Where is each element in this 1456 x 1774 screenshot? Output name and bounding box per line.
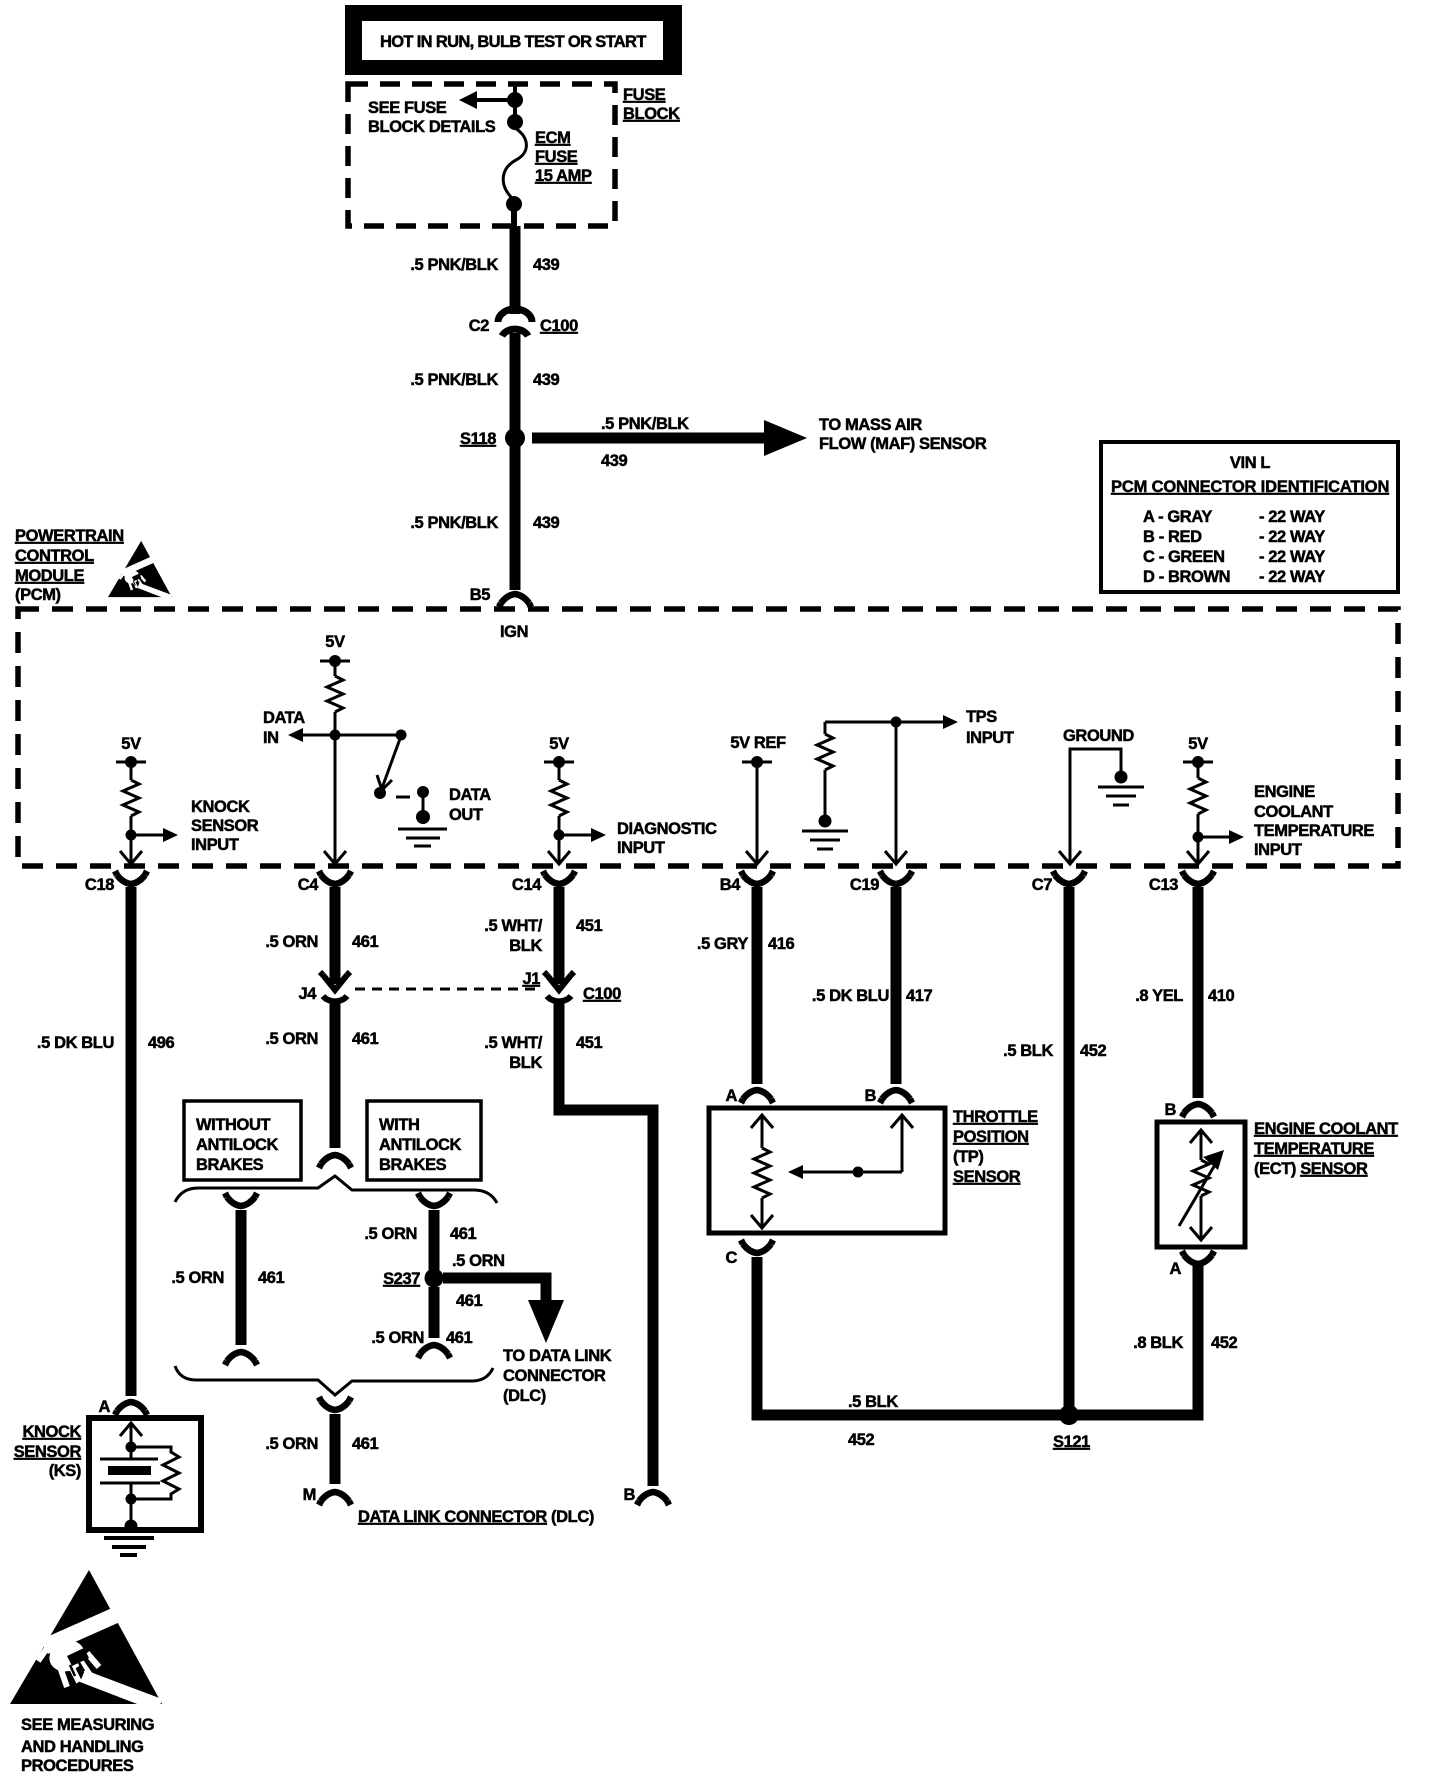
- svg-text:IGN: IGN: [500, 623, 528, 641]
- label THROTTLE POSITION (TP) SENSOR: [953, 1108, 1038, 1186]
- wire to pin C14 with arrow: [548, 816, 570, 864]
- label .5 BLK 452: [1003, 1042, 1106, 1060]
- upper brace: [175, 1176, 497, 1203]
- wire to pin C4 with arrow: [324, 735, 346, 864]
- node 5V (diagnostic pullup): [544, 735, 574, 768]
- svg-text:- 22 WAY: - 22 WAY: [1259, 568, 1325, 586]
- svg-text:C100: C100: [583, 985, 621, 1003]
- svg-text:WITHOUT: WITHOUT: [196, 1116, 271, 1134]
- svg-text:B: B: [623, 1486, 635, 1504]
- svg-text:451: 451: [576, 917, 603, 935]
- svg-text:B4: B4: [720, 876, 742, 894]
- svg-text:ENGINE: ENGINE: [1254, 783, 1315, 801]
- pin A of knock sensor: [98, 1398, 147, 1416]
- pin B4: [720, 871, 773, 894]
- svg-text:.5 DK BLU: .5 DK BLU: [37, 1034, 114, 1052]
- svg-text:461: 461: [352, 933, 379, 951]
- wire 461 without-ABS branch: [225, 1193, 257, 1365]
- svg-text:C18: C18: [85, 876, 114, 894]
- wire end hook above brace: [319, 1155, 351, 1168]
- TP internal right arrow up: [891, 1115, 913, 1172]
- svg-text:J1: J1: [522, 970, 540, 988]
- svg-text:461: 461: [352, 1030, 379, 1048]
- svg-text:PROCEDURES: PROCEDURES: [21, 1757, 134, 1774]
- label .5 GRY 416: [697, 935, 795, 953]
- svg-text:(DLC): (DLC): [503, 1387, 546, 1405]
- svg-text:BRAKES: BRAKES: [379, 1156, 447, 1174]
- svg-text:S237: S237: [383, 1270, 420, 1288]
- pin B of DLC: [623, 1486, 669, 1505]
- svg-text:B: B: [1164, 1101, 1176, 1119]
- wire 439 segment 3: [510, 438, 521, 590]
- pin C14: [512, 871, 575, 894]
- svg-text:IN: IN: [263, 729, 279, 747]
- svg-text:ANTILOCK: ANTILOCK: [196, 1136, 279, 1154]
- svg-text:TO MASS AIR: TO MASS AIR: [819, 416, 922, 434]
- svg-text:SEE FUSE: SEE FUSE: [368, 99, 447, 117]
- PCM dashed box: [18, 609, 1398, 866]
- svg-text:.5 PNK/BLK: .5 PNK/BLK: [410, 256, 498, 274]
- svg-text:A - GRAY: A - GRAY: [1143, 508, 1212, 526]
- junction dot: [506, 196, 522, 212]
- svg-text:BRAKES: BRAKES: [196, 1156, 264, 1174]
- label .5 DK BLU 417: [812, 987, 933, 1005]
- svg-text:DATA: DATA: [449, 786, 491, 804]
- label .5 PNK/BLK 439: [410, 256, 559, 274]
- svg-text:THROTTLE: THROTTLE: [953, 1108, 1038, 1126]
- wire from hot feed to fuse: [513, 84, 517, 124]
- arrow DATA IN: [263, 709, 335, 747]
- svg-text:.5 PNK/BLK: .5 PNK/BLK: [410, 514, 498, 532]
- label .5 PNK/BLK 439: [410, 514, 559, 532]
- svg-text:GROUND: GROUND: [1063, 727, 1134, 745]
- svg-text:(KS): (KS): [49, 1462, 81, 1480]
- pin A of ECT sensor: [1169, 1251, 1214, 1278]
- pin B5 of PCM: [470, 586, 531, 607]
- pin C of TP sensor: [725, 1240, 773, 1267]
- svg-text:451: 451: [576, 1034, 603, 1052]
- arrow to fuse block details: [459, 91, 515, 109]
- pin C7: [1032, 871, 1085, 894]
- svg-text:DIAGNOSTIC: DIAGNOSTIC: [617, 820, 717, 838]
- junction dot TPS: [891, 717, 902, 728]
- svg-text:.5 PNK/BLK: .5 PNK/BLK: [601, 415, 689, 433]
- label KNOCK SENSOR (KS): [14, 1423, 82, 1480]
- svg-text:C - GREEN: C - GREEN: [1143, 548, 1225, 566]
- pin C19: [850, 871, 912, 894]
- pin B of TP sensor: [864, 1087, 912, 1105]
- wire below S237: [418, 1287, 450, 1358]
- fuse F1 ECM FUSE 15 AMP: [503, 128, 592, 197]
- svg-text:DATA LINK CONNECTOR (DLC): DATA LINK CONNECTOR (DLC): [358, 1508, 594, 1526]
- label .8 BLK 452: [1133, 1334, 1237, 1352]
- svg-text:BLK: BLK: [509, 937, 542, 955]
- svg-text:MODULE: MODULE: [15, 567, 84, 585]
- svg-text:SENSOR: SENSOR: [14, 1443, 82, 1461]
- junction dot: [507, 92, 523, 108]
- svg-text:D - BROWN: D - BROWN: [1143, 568, 1230, 586]
- dashed link J4 to J1: [355, 988, 540, 991]
- svg-text:.5 ORN: .5 ORN: [364, 1225, 417, 1243]
- svg-text:WITH: WITH: [379, 1116, 420, 1134]
- engine coolant temperature sensor box: [1157, 1122, 1245, 1247]
- svg-text:ANTILOCK: ANTILOCK: [379, 1136, 462, 1154]
- node 5V (knock pullup): [116, 735, 146, 768]
- resistor data pull-up: [327, 661, 343, 735]
- junction dot data: [330, 730, 341, 741]
- label .5 DK BLU 496: [37, 1034, 175, 1052]
- svg-text:.5 WHT/: .5 WHT/: [484, 1034, 543, 1052]
- svg-text:C7: C7: [1032, 876, 1053, 894]
- wire 439 segment 2: [510, 333, 521, 438]
- svg-text:496: 496: [148, 1034, 175, 1052]
- svg-text:- 22 WAY: - 22 WAY: [1259, 528, 1325, 546]
- svg-text:AND HANDLING: AND HANDLING: [21, 1738, 144, 1756]
- label TO MASS AIR FLOW (MAF) SENSOR: [819, 416, 987, 453]
- label .5 WHT/BLK 451: [484, 1034, 602, 1072]
- switch lever (data out): [335, 730, 407, 791]
- arrow DIAGNOSTIC INPUT: [559, 820, 717, 857]
- label DATA OUT: [449, 786, 491, 824]
- svg-text:.5 ORN: .5 ORN: [265, 933, 318, 951]
- svg-text:5V: 5V: [121, 735, 141, 753]
- node 5V (data pullup): [320, 633, 350, 667]
- junction dot knock: [126, 830, 137, 841]
- svg-text:.5 ORN: .5 ORN: [171, 1269, 224, 1287]
- svg-text:POWERTRAIN: POWERTRAIN: [15, 527, 124, 545]
- svg-text:B - RED: B - RED: [1143, 528, 1202, 546]
- box WITHOUT ANTILOCK BRAKES: [184, 1101, 301, 1180]
- svg-text:.5 BLK: .5 BLK: [1003, 1042, 1053, 1060]
- svg-text:KNOCK: KNOCK: [23, 1423, 82, 1441]
- svg-text:FUSE: FUSE: [535, 148, 578, 166]
- svg-text:417: 417: [906, 987, 933, 1005]
- label .5 WHT/BLK 451: [484, 917, 602, 955]
- wire 461 from J4: [330, 1001, 341, 1148]
- power feed box HOT IN RUN: [345, 5, 682, 75]
- svg-text:S118: S118: [460, 430, 496, 448]
- svg-text:INPUT: INPUT: [1254, 841, 1302, 859]
- svg-text:FUSE: FUSE: [623, 86, 666, 104]
- svg-text:CONTROL: CONTROL: [15, 547, 94, 565]
- svg-text:452: 452: [848, 1431, 875, 1449]
- svg-text:(PCM): (PCM): [15, 586, 61, 604]
- svg-text:SENSOR: SENSOR: [953, 1168, 1021, 1186]
- wire 439 segment 1: [510, 226, 521, 314]
- svg-text:PCM CONNECTOR IDENTIFICATION: PCM CONNECTOR IDENTIFICATION: [1111, 478, 1389, 496]
- TP resistor: [754, 1148, 770, 1198]
- svg-text:C4: C4: [298, 876, 320, 894]
- wire 451 from C14: [554, 887, 565, 984]
- net IGN label: [500, 623, 528, 641]
- junction dot diagnostic: [554, 830, 565, 841]
- svg-text:A: A: [725, 1087, 737, 1105]
- ECT wire down arrow to A: [1190, 1196, 1212, 1240]
- svg-text:5V REF: 5V REF: [730, 734, 786, 752]
- svg-text:.5 ORN: .5 ORN: [265, 1435, 318, 1453]
- wire 410 from C13: [1193, 887, 1204, 1098]
- svg-text:SENSOR: SENSOR: [191, 817, 259, 835]
- ESD warning symbol small (near PCM label): [108, 541, 172, 601]
- KS internal arrow up: [120, 1423, 142, 1447]
- svg-text:452: 452: [1080, 1042, 1107, 1060]
- wire to pin C13 with arrow: [1187, 814, 1209, 864]
- svg-text:.5 ORN: .5 ORN: [265, 1030, 318, 1048]
- ground (TPS): [802, 815, 848, 850]
- svg-text:KNOCK: KNOCK: [191, 798, 250, 816]
- svg-text:C: C: [725, 1249, 737, 1267]
- svg-text:TPS: TPS: [966, 708, 997, 726]
- svg-text:(ECT) SENSOR: (ECT) SENSOR: [1254, 1160, 1368, 1178]
- svg-text:439: 439: [601, 452, 628, 470]
- svg-text:TO DATA LINK: TO DATA LINK: [503, 1347, 612, 1365]
- wire 452 from C7: [1064, 887, 1075, 1415]
- KS ground dot: [125, 1520, 138, 1533]
- label DATA LINK CONNECTOR (DLC): [358, 1508, 594, 1526]
- wire branch to MAF sensor: [532, 415, 807, 470]
- svg-text:ENGINE COOLANT: ENGINE COOLANT: [1254, 1120, 1398, 1138]
- wire 461 to DLC pin M: [319, 1397, 351, 1484]
- label .5 ORN 461: [364, 1225, 476, 1243]
- arrow ENGINE COOLANT TEMPERATURE INPUT: [1198, 783, 1374, 859]
- TP wiper junction dot: [853, 1167, 864, 1178]
- TP internal left arrow up: [751, 1115, 773, 1148]
- svg-text:410: 410: [1208, 987, 1235, 1005]
- svg-text:.5 ORN: .5 ORN: [371, 1329, 424, 1347]
- KS node dot bottom: [126, 1494, 137, 1505]
- wire 452 from TP pin C: [757, 1257, 1064, 1415]
- connector C2 C100: [469, 309, 578, 336]
- lower brace: [175, 1366, 493, 1395]
- label .5 ORN 461: [371, 1329, 472, 1347]
- svg-text:.8 YEL: .8 YEL: [1135, 987, 1183, 1005]
- ECT internal arrow up: [1190, 1130, 1212, 1160]
- arrow KNOCK SENSOR INPUT: [131, 798, 259, 854]
- svg-text:VIN L: VIN L: [1230, 454, 1270, 472]
- svg-text:HOT IN RUN, BULB TEST OR START: HOT IN RUN, BULB TEST OR START: [380, 33, 646, 51]
- svg-text:461: 461: [352, 1435, 379, 1453]
- label ENGINE COOLANT TEMPERATURE (ECT) SENSOR: [1254, 1120, 1398, 1178]
- svg-text:S121: S121: [1053, 1433, 1090, 1451]
- svg-text:461: 461: [258, 1269, 285, 1287]
- svg-text:5V: 5V: [325, 633, 345, 651]
- svg-text:OUT: OUT: [449, 806, 483, 824]
- svg-text:C19: C19: [850, 876, 879, 894]
- svg-text:452: 452: [1211, 1334, 1238, 1352]
- wire 417 from C19: [891, 887, 902, 1084]
- ground (knock sensor): [104, 1538, 154, 1555]
- svg-text:B: B: [864, 1087, 876, 1105]
- svg-text:C14: C14: [512, 876, 542, 894]
- wire to pin C7 with arrow: [1059, 749, 1081, 864]
- svg-text:BLOCK: BLOCK: [623, 105, 680, 123]
- wire to pin C19 with arrow: [885, 722, 907, 864]
- wire to pin C18 with arrow: [120, 816, 142, 864]
- svg-text:TEMPERATURE: TEMPERATURE: [1254, 1140, 1374, 1158]
- pin B of ECT sensor: [1164, 1101, 1214, 1119]
- label .5 BLK 452: [848, 1393, 898, 1449]
- svg-text:INPUT: INPUT: [966, 729, 1014, 747]
- TP wiper arrow: [788, 1165, 902, 1179]
- junction dot: [507, 114, 523, 130]
- svg-text:A: A: [1169, 1260, 1181, 1278]
- svg-text:INPUT: INPUT: [617, 839, 665, 857]
- ground (data out): [398, 792, 447, 846]
- label .5 ORN 461: [265, 1030, 378, 1048]
- svg-text:BLOCK DETAILS: BLOCK DETAILS: [368, 118, 496, 136]
- svg-text:B5: B5: [470, 586, 491, 604]
- svg-text:.8 BLK: .8 BLK: [1133, 1334, 1183, 1352]
- svg-text:POSITION: POSITION: [953, 1128, 1029, 1146]
- pin M of DLC: [303, 1486, 351, 1505]
- svg-text:.5 ORN: .5 ORN: [452, 1252, 505, 1270]
- wire 452 S121 to ECT pin A: [1074, 1266, 1198, 1415]
- svg-text:J4: J4: [298, 985, 317, 1003]
- fuse block dashed box: [348, 84, 615, 226]
- svg-text:COOLANT: COOLANT: [1254, 803, 1333, 821]
- wire 461 from C4: [330, 887, 341, 984]
- node 5V REF: [730, 734, 786, 768]
- svg-text:.5 BLK: .5 BLK: [848, 1393, 898, 1411]
- label FUSE BLOCK: [623, 86, 680, 123]
- pin C13: [1149, 871, 1214, 894]
- KS node dot top: [126, 1442, 137, 1453]
- svg-text:5V: 5V: [1188, 735, 1208, 753]
- resistor diagnostic pull-up: [551, 762, 567, 816]
- VIN L PCM connector identification table: [1101, 442, 1398, 592]
- svg-text:- 22 WAY: - 22 WAY: [1259, 548, 1325, 566]
- KS parallel resistor: [131, 1447, 179, 1499]
- svg-text:439: 439: [533, 256, 560, 274]
- svg-text:(TP): (TP): [953, 1148, 983, 1166]
- splice S118: [460, 428, 525, 448]
- label .8 YEL 410: [1135, 987, 1234, 1005]
- label .5 ORN 461: [171, 1269, 284, 1287]
- svg-text:461: 461: [446, 1329, 473, 1347]
- svg-text:.5 DK BLU: .5 DK BLU: [812, 987, 889, 1005]
- resistor knock pull-up: [123, 762, 139, 816]
- wire 451 from J1 with elbow: [559, 1001, 653, 1486]
- svg-text:M: M: [303, 1486, 316, 1504]
- svg-text:439: 439: [533, 514, 560, 532]
- node 5V (ECT pullup): [1183, 735, 1213, 768]
- svg-text:BLK: BLK: [509, 1054, 542, 1072]
- svg-text:INPUT: INPUT: [191, 836, 239, 854]
- svg-text:5V: 5V: [549, 735, 569, 753]
- label .5 PNK/BLK 439: [410, 371, 559, 389]
- wire 461 with-ABS branch: [418, 1193, 450, 1270]
- knock sensor KS box: [89, 1418, 201, 1530]
- label SEE MEASURING AND HANDLING PROCEDURES: [21, 1716, 154, 1774]
- svg-text:ECM: ECM: [535, 129, 570, 147]
- box WITH ANTILOCK BRAKES: [367, 1101, 481, 1180]
- svg-text:- 22 WAY: - 22 WAY: [1259, 508, 1325, 526]
- label POWERTRAIN CONTROL MODULE (PCM): [15, 527, 124, 604]
- svg-text:.5 PNK/BLK: .5 PNK/BLK: [410, 371, 498, 389]
- node GROUND: [1063, 727, 1134, 771]
- splice S237: [383, 1269, 443, 1289]
- ESD warning symbol large (bottom left): [10, 1570, 162, 1712]
- svg-text:15 AMP: 15 AMP: [535, 167, 592, 185]
- wire 416 from B4: [752, 887, 763, 1084]
- resistor ECT pull-up: [1190, 762, 1206, 814]
- KS wire to ground: [130, 1499, 133, 1524]
- TP wire down arrow to C: [751, 1198, 773, 1228]
- label .5 ORN 461: [265, 1435, 378, 1453]
- svg-text:C2: C2: [469, 317, 490, 335]
- resistor TPS: [817, 722, 833, 816]
- svg-text:416: 416: [768, 935, 795, 953]
- wire 496 from C18: [126, 887, 137, 1396]
- pin C18: [85, 871, 147, 894]
- connector J1 C100: [522, 970, 621, 1003]
- wire to pin B4 with arrow: [746, 762, 768, 864]
- svg-text:439: 439: [533, 371, 560, 389]
- svg-text:C100: C100: [540, 317, 578, 335]
- arrow TPS INPUT: [825, 708, 1014, 747]
- label SEE FUSE BLOCK DETAILS: [368, 99, 496, 136]
- label .5 ORN 461: [265, 933, 378, 951]
- KS piezo element: [100, 1447, 160, 1499]
- wire fuse to block edge: [511, 204, 517, 226]
- ground symbol (C7): [1098, 771, 1144, 806]
- pin A of TP sensor: [725, 1087, 773, 1105]
- pin C4: [298, 871, 351, 894]
- svg-text:.5 WHT/: .5 WHT/: [484, 917, 543, 935]
- junction dot ECT: [1193, 832, 1204, 843]
- svg-text:TEMPERATURE: TEMPERATURE: [1254, 822, 1374, 840]
- label TO DATA LINK CONNECTOR (DLC): [503, 1347, 612, 1405]
- svg-text:FLOW (MAF) SENSOR: FLOW (MAF) SENSOR: [819, 435, 987, 453]
- switch contacts: [374, 786, 429, 799]
- branch wire to DLC with arrow: [443, 1252, 564, 1343]
- svg-text:A: A: [98, 1398, 110, 1416]
- svg-text:461: 461: [456, 1292, 483, 1310]
- throttle position sensor box: [709, 1108, 945, 1233]
- svg-text:.5 GRY: .5 GRY: [697, 935, 748, 953]
- ECT thermistor: [1179, 1150, 1224, 1226]
- svg-text:SEE MEASURING: SEE MEASURING: [21, 1716, 154, 1734]
- connector J4: [298, 972, 350, 1003]
- svg-text:DATA: DATA: [263, 709, 305, 727]
- svg-text:C13: C13: [1149, 876, 1178, 894]
- svg-text:CONNECTOR: CONNECTOR: [503, 1367, 606, 1385]
- splice S121: [1053, 1405, 1090, 1451]
- svg-text:461: 461: [450, 1225, 477, 1243]
